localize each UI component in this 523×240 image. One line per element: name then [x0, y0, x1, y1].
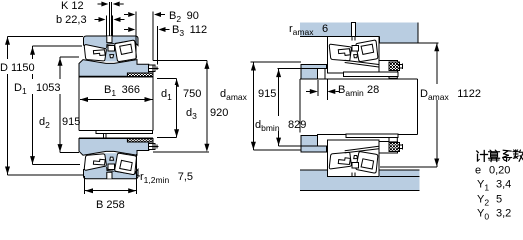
svg-text:28: 28	[367, 84, 379, 96]
svg-text:5: 5	[496, 194, 502, 206]
svg-text:0,20: 0,20	[489, 165, 510, 177]
svg-text:b 22,3: b 22,3	[56, 14, 87, 26]
svg-text:3,4: 3,4	[496, 179, 511, 191]
svg-text:1053: 1053	[36, 82, 60, 94]
svg-text:e: e	[475, 165, 481, 177]
svg-text:829: 829	[288, 119, 306, 131]
svg-text:B 258: B 258	[96, 199, 125, 211]
svg-text:915: 915	[258, 88, 276, 100]
svg-text:D: D	[0, 62, 8, 74]
svg-text:K 12: K 12	[61, 0, 84, 12]
svg-text:915: 915	[62, 116, 80, 128]
svg-text:3,2: 3,2	[496, 208, 511, 220]
svg-text:750: 750	[183, 88, 201, 100]
svg-text:1150: 1150	[11, 62, 35, 74]
svg-text:B1 366: B1 366	[104, 84, 140, 98]
svg-text:920: 920	[210, 107, 228, 119]
svg-text:B2 90: B2 90	[169, 10, 199, 24]
svg-text:B3 112: B3 112	[172, 24, 207, 38]
